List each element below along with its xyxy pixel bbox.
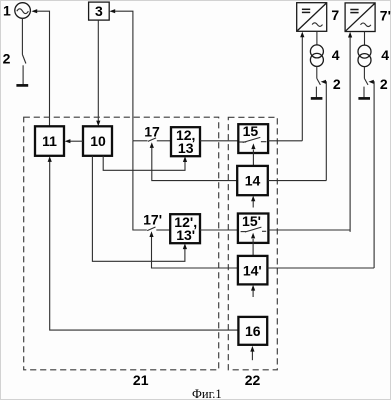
- wire box 3 to box 10: [97, 20, 99, 121]
- svg-text:4: 4: [332, 47, 340, 63]
- switch 17' control arrow from 14': [152, 237, 238, 268]
- svg-text:11: 11: [42, 133, 57, 149]
- switch 17 blade: [148, 138, 156, 142]
- svg-text:15': 15': [242, 213, 261, 229]
- wire switch to ground (unit 7'): [363, 87, 365, 98]
- wire 14' to U7'-switch line: [267, 267, 374, 269]
- floating arrow into 14 bottom: [252, 201, 254, 208]
- wire node A to source (arrow into circle): [37, 11, 50, 126]
- dashed box 21: [24, 117, 219, 370]
- wire node 14-out to switch arrow: [325, 82, 326, 181]
- svg-text:17: 17: [144, 124, 160, 140]
- box 14': [238, 256, 268, 285]
- wire up-arrow into U7' from node 15'-out: [349, 37, 351, 232]
- box 11: [35, 126, 64, 156]
- ground: [16, 84, 28, 87]
- svg-text:2: 2: [3, 50, 11, 66]
- svg-text:13': 13': [176, 227, 195, 243]
- converter U7: [297, 3, 327, 32]
- svg-text:7': 7': [380, 7, 391, 23]
- switch 2 blade (unit 7): [317, 78, 321, 85]
- svg-text:16: 16: [245, 323, 261, 339]
- wire into box 3 (arrow): [115, 11, 133, 141]
- converter U7': [345, 3, 375, 32]
- wire into switch 17': [133, 141, 147, 230]
- wire transformer to switch: [316, 66, 318, 78]
- svg-text:17': 17': [143, 212, 162, 228]
- wire U7' to transformer 4': [364, 32, 366, 46]
- ground (unit 7'): [358, 97, 370, 100]
- wire to ground: [22, 65, 24, 84]
- wire 15 to U7: [268, 140, 302, 142]
- svg-text:22: 22: [245, 372, 261, 388]
- svg-text:4: 4: [381, 47, 389, 63]
- switch 17 control arrow from 14: [152, 148, 237, 181]
- svg-text:10: 10: [90, 133, 106, 149]
- wire node 14'-out to switch arrow (unit 7'): [373, 82, 374, 268]
- box 12',13': [170, 214, 200, 243]
- wire 16 to 11 bottom (arrow): [50, 162, 239, 331]
- switch 2 (left) blade: [22, 55, 26, 64]
- wire 15' to U7': [268, 229, 350, 231]
- box 16: [238, 317, 267, 345]
- switch inside 15: [240, 141, 247, 143]
- box 12,13: [171, 127, 200, 156]
- svg-text:13: 13: [178, 140, 194, 156]
- switch 17' blade: [147, 227, 155, 231]
- wire up-arrow into U7 from node 15-out: [301, 37, 303, 141]
- box 10: [83, 126, 112, 156]
- box 15': [238, 214, 269, 243]
- switch inside 15': [241, 231, 246, 233]
- svg-text:21: 21: [133, 372, 149, 388]
- switch 2 blade (unit 7'): [364, 78, 368, 85]
- wire 10 to 11 (arrow): [70, 140, 83, 142]
- wire 12,13 to 15: [200, 140, 238, 142]
- wire transformer to switch (unit 7'): [363, 67, 365, 79]
- ground (unit 7): [311, 97, 323, 100]
- wire 12',13' to 15': [200, 229, 238, 231]
- floating arrow into 16 bottom: [251, 351, 253, 360]
- wire 10 to 12,13 bottom short: [103, 156, 185, 171]
- wire 14 to 15 control: [252, 150, 254, 166]
- wire switch to ground: [315, 87, 317, 98]
- svg-text:15: 15: [243, 123, 259, 139]
- wire U7 to transformer 4: [316, 31, 318, 45]
- wire source down: [21, 18, 23, 54]
- box 14: [237, 166, 268, 195]
- box 3: [89, 2, 110, 20]
- svg-text:2: 2: [380, 76, 388, 92]
- svg-text:14': 14': [243, 262, 262, 278]
- svg-text:2: 2: [333, 76, 341, 92]
- wire switch 17' to box 12',13': [156, 229, 170, 231]
- svg-text:Фиг.1: Фиг.1: [192, 387, 222, 400]
- wire switch 17 to box 12,13: [157, 140, 171, 142]
- wire 10 to 12,13 bottom: [92, 156, 184, 261]
- floating arrow into 14' bottom: [252, 290, 254, 297]
- wire 14' to 15' control: [252, 239, 254, 256]
- svg-text:1: 1: [3, 2, 11, 18]
- wire 14 to U7-switch line: [268, 180, 327, 182]
- transformer 4': [358, 45, 371, 58]
- wire into switch 17: [133, 140, 148, 142]
- transformer 4: [310, 45, 323, 58]
- svg-text:7: 7: [331, 7, 339, 23]
- AC source G1 circle: [15, 3, 31, 19]
- dashed box 22: [228, 117, 277, 369]
- svg-text:3: 3: [95, 3, 103, 19]
- box 15: [238, 124, 268, 153]
- svg-text:14: 14: [245, 173, 261, 189]
